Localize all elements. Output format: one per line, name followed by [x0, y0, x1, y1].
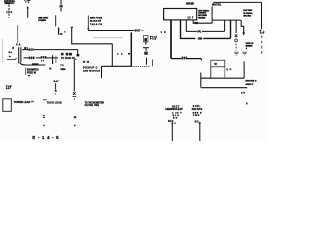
svg-text:DIST REF: DIST REF [243, 10, 253, 12]
svg-text:TAN LEAD: TAN LEAD [198, 17, 206, 20]
node TO DIST label [60, 57, 76, 71]
svg-text:TAILS PG: TAILS PG [90, 23, 102, 26]
svg-text:TACH LEAD: TACH LEAD [47, 102, 62, 105]
svg-text:FILTER USE: FILTER USE [85, 105, 100, 107]
wire labels row [61, 53, 64, 56]
fuse F1 label [6, 10, 12, 14]
wire label on switch output [32, 63, 39, 65]
svg-text:IGN SWTCH: IGN SWTCH [27, 69, 39, 71]
svg-text:1 C: 1 C [161, 31, 166, 34]
wire to tach filter [73, 60, 75, 92]
svg-text:THE W: THE W [60, 69, 65, 71]
wire bus lower right [201, 77, 244, 79]
wire from coil top via corner to distributor bus [72, 28, 113, 66]
wire with up arrow x88 [87, 16, 89, 31]
svg-text:PART OF: PART OF [246, 42, 255, 45]
node C100 label [24, 0, 30, 4]
wire distributor bus bottom [102, 65, 132, 67]
svg-text:W: W [214, 62, 217, 66]
node tach label right [85, 101, 105, 107]
svg-text:C 48 V: C 48 V [172, 112, 182, 115]
svg-text:IGN SYS: IGN SYS [192, 107, 203, 111]
wire dashed right edge [261, 36, 263, 57]
wire labels small [117, 53, 131, 55]
wire dashed x43 [43, 99, 47, 100]
svg-text:TO: TO [60, 65, 64, 67]
enclosure top line [213, 1, 261, 3]
svg-text:PCE: PCE [150, 39, 157, 41]
svg-text:AN: AN [241, 91, 245, 94]
wire faint [93, 37, 123, 39]
wire thick distributor drop [130, 32, 132, 66]
svg-text:C 2: C 2 [117, 53, 123, 55]
node label WHT/BLK top [212, 5, 222, 7]
wire bus to distributor [88, 30, 134, 32]
wire stub thick [58, 28, 60, 35]
wire label BLK [41, 56, 47, 58]
wire drop right [199, 123, 201, 141]
wire dashed below tach [74, 116, 77, 118]
wire rail left up [211, 7, 213, 21]
svg-text:GROUND: GROUND [243, 16, 251, 18]
connector on tach wire [73, 92, 76, 95]
svg-text:AND MODULE: AND MODULE [83, 70, 100, 73]
off-page arrow glyph [9, 51, 13, 54]
wire label [195, 22, 198, 24]
ECM box B1 [164, 9, 197, 20]
svg-text:HI SIGNAL: HI SIGNAL [243, 12, 253, 15]
svg-text:BAT: BAT [54, 80, 60, 83]
wire pin 186 drop [186, 20, 197, 31]
svg-text:T O: T O [25, 2, 29, 4]
node label right of box [14, 101, 34, 104]
svg-text:GRN: GRN [198, 39, 203, 41]
node tach label left [47, 102, 62, 105]
node figure number [32, 135, 59, 140]
ignition coil terminal blob [77, 54, 80, 56]
svg-text:QN: QN [226, 69, 231, 71]
node small label [241, 91, 245, 94]
connector T-bar under pickup [145, 42, 147, 45]
svg-text:SEE FUSE: SEE FUSE [90, 17, 102, 19]
wire to ignition switch [17, 25, 19, 43]
svg-text:PICKUP C: PICKUP C [83, 66, 98, 69]
node B+ label [260, 30, 265, 34]
wire bus drop left [101, 66, 103, 78]
connector tick on coil wire [71, 27, 73, 29]
node label block TL3 [38, 18, 48, 22]
ground G1 [234, 52, 239, 55]
wire pin 180 drop (thick) [181, 20, 196, 38]
svg-text:4A: 4A [16, 43, 21, 46]
wire H1 ignition feed [22, 49, 28, 51]
wire rail (distributor connector) [212, 19, 241, 21]
wire H1 continued to coil [34, 50, 78, 55]
node title bold bottom [165, 104, 202, 111]
node PICKUP COIL label [83, 66, 100, 72]
node label block x90 [90, 17, 102, 26]
wire stub x55.6 [55, 83, 57, 89]
svg-text:PPL: PPL [198, 32, 202, 34]
svg-text:13 7: 13 7 [187, 16, 194, 19]
svg-text:TO TACH FIL: TO TACH FIL [61, 57, 76, 60]
wire fuse feed (dashed) [8, 5, 10, 11]
node wire labels left drop [168, 112, 182, 124]
wire tooth ground path [235, 20, 237, 33]
node wire labels right drop [193, 113, 203, 124]
node distributor pickup box [144, 36, 149, 43]
node small label above stub [54, 80, 60, 83]
wire pin 193 drop [193, 20, 212, 23]
enclosure right edge [261, 2, 263, 29]
connector bowtie [235, 34, 238, 37]
connector circle [235, 39, 238, 42]
svg-text:WHT: WHT [135, 30, 141, 33]
svg-text:TO TACHOMETER: TO TACHOMETER [85, 101, 105, 104]
svg-text:RA: RA [9, 51, 13, 54]
wire label [135, 30, 141, 33]
wire H2 continued [36, 57, 58, 59]
svg-text:FEED W: FEED W [27, 72, 37, 74]
svg-text:TIMES FU: TIMES FU [4, 2, 14, 5]
label dots [41, 60, 42, 62]
svg-text:BLOCK DE: BLOCK DE [90, 21, 101, 23]
wire label WHT [29, 57, 35, 60]
wire label PNK [29, 48, 34, 50]
pin numbers inside B1 [187, 16, 194, 19]
wire with connector x61 [60, 0, 62, 5]
wire dashed [235, 44, 237, 51]
wire TO arrows upper-left-center [55, 15, 57, 26]
svg-text:POWER LEAD: POWER LEAD [14, 101, 31, 104]
svg-text:B: B [12, 48, 14, 50]
wire thick from B1 pin x171 [170, 20, 172, 59]
wire drop left [171, 123, 173, 141]
pin mark below B1 left [161, 31, 166, 34]
svg-text:GRND P: GRND P [245, 84, 253, 86]
svg-text:NC: NC [195, 121, 199, 123]
node label right of bus [245, 81, 256, 86]
wire faint connector [224, 67, 226, 78]
node label above box [6, 86, 12, 90]
connector box W [211, 60, 225, 67]
wire vertical junction x201 [200, 59, 202, 61]
ground G2 [242, 52, 247, 55]
wire lower horizontal to right [201, 87, 247, 89]
svg-text:PWR: PWR [193, 115, 200, 117]
svg-text:12V: 12V [260, 33, 265, 35]
fusible link label [12, 43, 28, 50]
svg-text:ENGINE G: ENGINE G [245, 81, 256, 83]
connector glyph 88 [144, 52, 148, 55]
node bottom-left box [3, 99, 12, 112]
svg-text:WHT/BL: WHT/BL [212, 5, 222, 7]
svg-text:HEI MODULE W: HEI MODULE W [165, 107, 183, 111]
node label right of pickup box [150, 36, 158, 40]
node label block right [243, 10, 253, 17]
svg-text:RD: RD [173, 118, 178, 120]
small marks [83, 61, 85, 63]
node label part of [246, 42, 255, 50]
wire rail right curl with arrow [241, 20, 244, 32]
wire faint left edge [2, 39, 4, 62]
svg-text:BAT: BAT [6, 87, 12, 90]
tiny marks [75, 59, 76, 60]
wire x244 drop [243, 62, 245, 79]
connector C2 bars [52, 55, 54, 64]
node label right of B1 [198, 10, 209, 19]
node HOT AT ALL TIMES label [4, 0, 15, 5]
svg-text:POWER D: POWER D [38, 20, 46, 22]
svg-text:NOT USED: NOT USED [186, 3, 195, 5]
wire horizontal from switch [26, 64, 46, 66]
node label above B1 [186, 3, 195, 5]
wire switch output curve [20, 63, 26, 65]
ignition switch S1 (double pole) [18, 47, 20, 63]
svg-text:15A: 15A [6, 10, 12, 14]
node ignition switch label box [25, 68, 27, 75]
wire below fuse (dashed) [8, 14, 10, 18]
wire H2 [24, 57, 29, 59]
wire with up arrow [27, 8, 29, 18]
